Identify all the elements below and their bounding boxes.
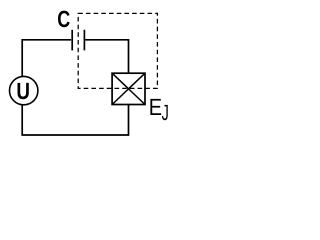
svg-text:E: E [149, 94, 162, 120]
svg-text:C: C [57, 6, 70, 32]
wire from capacitor left plate to voltage source (top-left L) [22, 40, 71, 76]
josephson junction EJ [112, 73, 145, 104]
wire from capacitor right plate to junction (top-right L) [85, 40, 129, 73]
label U [16, 78, 30, 104]
capacitor C [72, 30, 84, 51]
svg-text:U: U [16, 78, 30, 104]
label EJ [149, 94, 169, 125]
wire from junction bottom to voltage source (bottom U-shape) [22, 105, 128, 136]
svg-text:J: J [162, 100, 169, 125]
dashed island boundary [78, 13, 157, 88]
label C [57, 6, 70, 32]
voltage source U [10, 76, 38, 104]
